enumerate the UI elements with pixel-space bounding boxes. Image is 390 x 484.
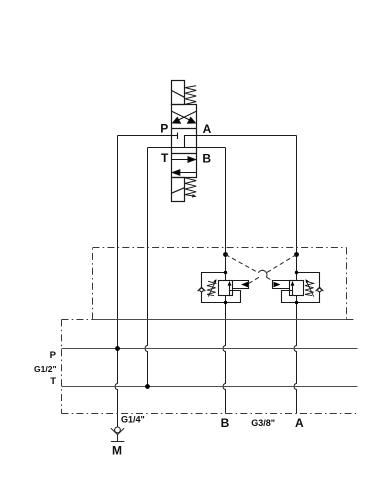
- node junction dot A pilot tap: [294, 252, 299, 257]
- svg-text:M: M: [112, 443, 122, 457]
- svg-text:T: T: [161, 151, 169, 165]
- svg-text:P: P: [160, 122, 168, 136]
- svg-text:A: A: [203, 122, 212, 136]
- svg-text:G3/8": G3/8": [251, 418, 275, 428]
- enclosure dash-dot boundary: [62, 248, 357, 414]
- pilot line A-to-CB1 (dashed): [249, 255, 297, 284]
- manifold T gallery line: [62, 386, 358, 388]
- wire A column vertical with hops: [294, 136, 296, 414]
- gauge port M take-off symbol: [111, 427, 124, 442]
- CB2 bypass with check valve: [282, 273, 320, 303]
- CB1 bypass junction dots: [224, 271, 227, 274]
- CB1 flow arrow: [228, 281, 232, 296]
- directional valve DV1 body: [172, 105, 197, 178]
- wire P port horizontal: [118, 135, 172, 137]
- CB1 pilot channel: [233, 281, 249, 289]
- CB2 bypass junction dots: [295, 271, 298, 274]
- svg-text:B: B: [202, 151, 211, 165]
- counterbalance valve CB1 (left, in B line): [198, 273, 249, 303]
- CB1 check valve ball and seat: [198, 287, 206, 292]
- valve position 1 crossed arrows: [172, 111, 197, 123]
- CB2 adjustment arrow: [306, 279, 314, 297]
- valve position 3 arrow right: [172, 157, 196, 162]
- svg-text:A: A: [295, 416, 304, 430]
- CB2 spring: [305, 281, 314, 295]
- counterbalance valve CB2 (right, in A line): [273, 273, 324, 303]
- CB1 main square: [219, 281, 233, 296]
- CB2 flow arrow: [291, 281, 295, 296]
- solenoid top: [172, 81, 185, 105]
- CB1 adjustment arrow: [208, 279, 216, 297]
- node junction dot B pilot tap: [223, 252, 228, 257]
- CB2 pilot arrow: [274, 282, 281, 288]
- spring top: [185, 86, 196, 105]
- manifold mounting interface line: [93, 319, 347, 321]
- CB1 spring: [207, 281, 216, 295]
- wire B port horizontal: [197, 147, 226, 149]
- wire A port horizontal: [197, 135, 297, 137]
- wire B column vertical with hops: [223, 148, 225, 414]
- valve centre position: T-B through line: [172, 147, 197, 149]
- wire T port horizontal: [148, 147, 172, 149]
- wire P drop vertical with hop over T line: [115, 136, 117, 428]
- solenoid bottom: [172, 178, 185, 202]
- svg-text:P: P: [50, 350, 57, 361]
- svg-text:T: T: [50, 376, 56, 387]
- svg-text:G1/4": G1/4": [121, 414, 145, 424]
- valve centre position: A to tank path: [185, 136, 197, 148]
- CB2 check valve ball and seat: [316, 287, 324, 292]
- spring bottom: [185, 178, 197, 198]
- valve centre position: P blocked stub: [172, 133, 178, 140]
- CB1 pilot arrow: [241, 282, 248, 288]
- pilot line B-to-CB2 (dashed) with hop: [226, 255, 273, 282]
- valve position 3 arrow left: [172, 170, 196, 175]
- CB1 bypass with check valve: [202, 273, 241, 303]
- svg-text:G1/2": G1/2": [34, 364, 56, 374]
- CB2 pilot channel: [273, 281, 290, 289]
- node junction dot P gallery: [115, 346, 120, 351]
- node junction dot T gallery: [145, 384, 150, 389]
- CB2 main square: [290, 281, 304, 296]
- wire T drop vertical with hop over P line: [145, 148, 147, 387]
- svg-text:B: B: [221, 416, 230, 430]
- manifold P gallery line: [62, 348, 358, 350]
